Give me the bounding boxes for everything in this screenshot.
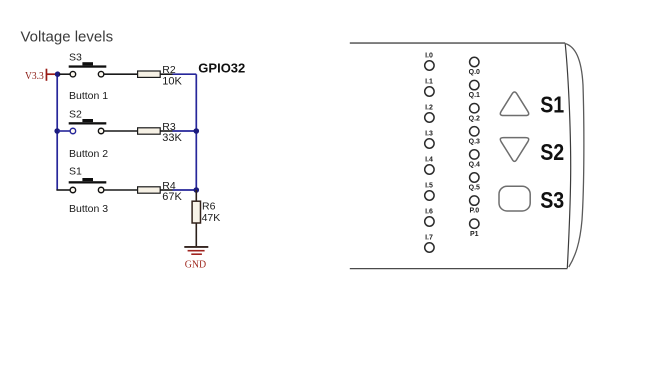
svg-text:Q.0: Q.0 [469, 69, 480, 76]
resistor R3 [138, 128, 173, 134]
LED column I labels and circles [425, 53, 434, 253]
pushbutton S2 [69, 119, 107, 134]
svg-text:Q.3: Q.3 [469, 138, 480, 145]
svg-text:10K: 10K [162, 75, 182, 87]
resistor R2 [138, 71, 173, 77]
LED column Q labels and circles [469, 57, 480, 238]
svg-text:V3.3: V3.3 [25, 70, 44, 82]
svg-text:I.1: I.1 [425, 79, 433, 86]
svg-text:I.4: I.4 [425, 157, 433, 164]
wire left bus (blue vertical) [56, 74, 58, 190]
device bottom edge [350, 268, 568, 270]
wire row2 stub to switch (blue) [58, 130, 70, 132]
svg-text:P.0: P.0 [469, 208, 479, 215]
LED Q.3 [470, 127, 479, 136]
svg-text:Q.2: Q.2 [469, 115, 480, 122]
wire row1 switch to resistor [104, 73, 138, 75]
svg-text:I.6: I.6 [425, 209, 433, 216]
wire row3 to bus (blue) [173, 189, 197, 191]
svg-text:S1: S1 [69, 165, 82, 177]
LED Q.1 [470, 80, 479, 89]
svg-text:GPIO32: GPIO32 [198, 61, 245, 76]
pushbutton S1 [69, 178, 107, 193]
junction node row1 left [55, 71, 61, 77]
svg-text:33K: 33K [162, 132, 182, 144]
power terminal bar [46, 69, 48, 81]
svg-text:I.7: I.7 [425, 235, 433, 242]
resistor R4 [138, 187, 173, 193]
svg-text:GND: GND [185, 259, 206, 271]
svg-text:S2: S2 [69, 109, 82, 121]
svg-text:R6: R6 [202, 201, 216, 213]
wire bus to R6 [195, 190, 197, 201]
svg-text:I.2: I.2 [425, 105, 433, 112]
device outer right edge [565, 44, 584, 268]
ground [184, 246, 208, 255]
svg-text:S3: S3 [540, 187, 564, 213]
svg-text:Q.4: Q.4 [469, 162, 480, 169]
wire row2 switch to resistor [104, 130, 138, 132]
LED Q.5 [470, 173, 479, 182]
resistor R6 [192, 201, 200, 223]
LED P1 [470, 219, 479, 228]
LED Q.2 [470, 104, 479, 113]
svg-text:S2: S2 [540, 139, 564, 165]
device top edge [350, 42, 565, 44]
junction node row2 right [194, 128, 200, 134]
wire right bus (blue vertical) [195, 74, 197, 190]
wire V3.3 stub (red) [47, 73, 56, 75]
svg-text:S3: S3 [69, 52, 82, 64]
wire row3 switch to resistor [104, 189, 138, 191]
junction node row3 right [194, 187, 200, 193]
LED P.0 [470, 196, 479, 205]
button S1 (up triangle) [500, 92, 528, 115]
svg-text:Q.1: Q.1 [469, 92, 480, 99]
device inner right edge [565, 44, 570, 269]
svg-text:Button 2: Button 2 [69, 148, 108, 160]
wire row1 stub to switch [59, 73, 70, 75]
svg-text:47K: 47K [202, 212, 221, 224]
svg-text:P1: P1 [470, 231, 479, 238]
junction node row2 left [54, 128, 60, 134]
LED Q.4 [470, 150, 479, 159]
svg-text:I.3: I.3 [425, 131, 433, 138]
svg-text:Button 3: Button 3 [69, 203, 108, 215]
svg-text:I.0: I.0 [425, 53, 433, 60]
svg-text:S1: S1 [540, 91, 564, 117]
LED Q.0 [470, 57, 479, 66]
svg-text:Button 1: Button 1 [69, 90, 108, 102]
button S2 (down triangle) [500, 138, 528, 162]
button S3 (rounded square) [499, 186, 530, 211]
pushbutton S3 [69, 62, 107, 77]
svg-text:67K: 67K [162, 191, 182, 203]
wire row3 stub to switch [56, 189, 70, 191]
wire R6 to ground [195, 223, 197, 246]
svg-text:I.5: I.5 [425, 183, 433, 190]
svg-text:Q.5: Q.5 [469, 185, 480, 192]
wire row1 to bus (blue) [173, 73, 197, 75]
svg-text:Voltage levels: Voltage levels [21, 29, 114, 46]
wire row2 to bus (blue) [173, 130, 197, 132]
